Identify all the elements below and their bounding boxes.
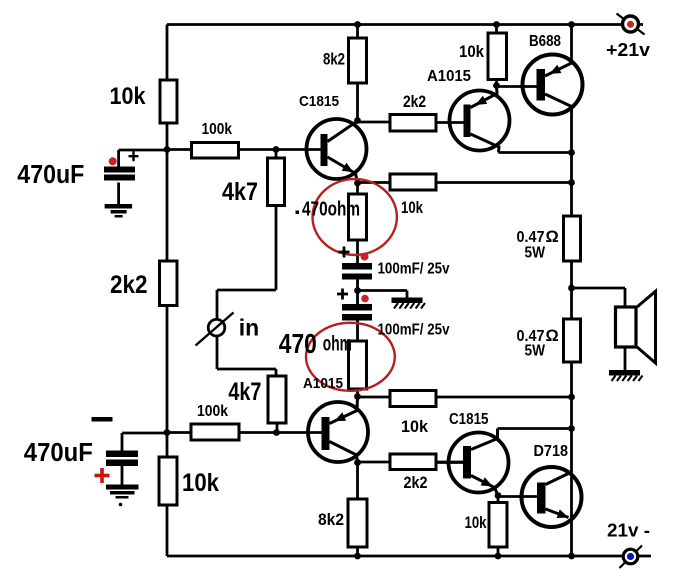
svg-text:0.47: 0.47 xyxy=(517,229,545,246)
svg-text:8k2: 8k2 xyxy=(318,510,344,529)
svg-text:5W: 5W xyxy=(525,245,546,262)
svg-text:100k: 100k xyxy=(202,121,233,138)
svg-text:10k: 10k xyxy=(401,198,423,217)
svg-text:B688: B688 xyxy=(529,33,561,50)
svg-text:470: 470 xyxy=(279,328,317,359)
svg-text:Ω: Ω xyxy=(546,228,559,246)
svg-text:10k: 10k xyxy=(401,417,429,436)
svg-text:10k: 10k xyxy=(465,513,487,532)
svg-text:A1015: A1015 xyxy=(303,376,343,392)
svg-text:2k2: 2k2 xyxy=(110,271,148,299)
svg-text:10k: 10k xyxy=(459,42,484,61)
svg-text:470ohm: 470ohm xyxy=(302,199,360,221)
svg-text:470uF: 470uF xyxy=(24,439,93,467)
svg-text:470uF: 470uF xyxy=(17,161,84,189)
svg-text:4k7: 4k7 xyxy=(228,378,261,406)
svg-text:21v -: 21v - xyxy=(607,520,650,541)
svg-text:100k: 100k xyxy=(197,403,228,420)
svg-text:C1815: C1815 xyxy=(299,93,339,110)
svg-text:in: in xyxy=(239,315,259,341)
svg-text:2k2: 2k2 xyxy=(403,92,426,111)
svg-text:C1815: C1815 xyxy=(449,411,489,428)
svg-text:A1015: A1015 xyxy=(427,68,471,85)
svg-text:4k7: 4k7 xyxy=(222,178,258,206)
svg-text:+21v: +21v xyxy=(606,39,651,60)
svg-text:10k: 10k xyxy=(182,469,219,497)
svg-text:5W: 5W xyxy=(525,343,546,360)
svg-text:8k2: 8k2 xyxy=(323,50,345,69)
svg-text:D718: D718 xyxy=(534,443,569,460)
svg-text:ohm: ohm xyxy=(323,333,352,356)
svg-text:2k2: 2k2 xyxy=(404,473,428,492)
svg-text:Ω: Ω xyxy=(546,327,559,345)
svg-text:10k: 10k xyxy=(110,83,147,110)
svg-text:100mF/ 25v: 100mF/ 25v xyxy=(378,261,450,278)
svg-text:100mF/ 25v: 100mF/ 25v xyxy=(378,322,450,339)
